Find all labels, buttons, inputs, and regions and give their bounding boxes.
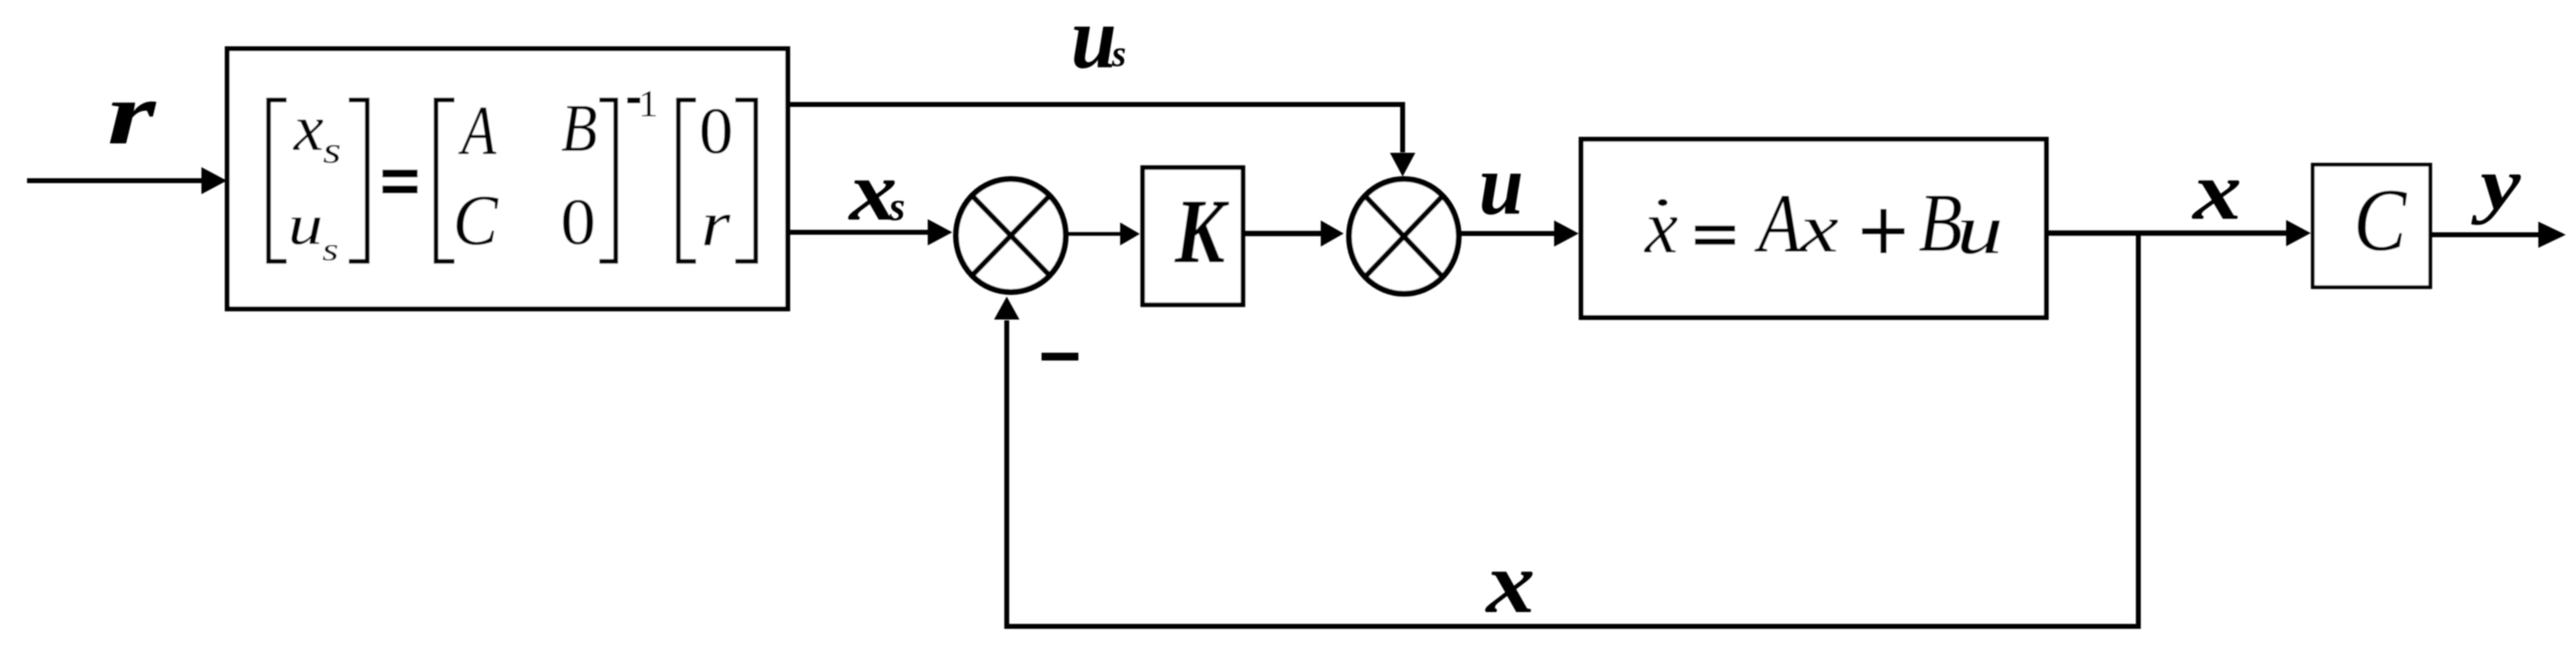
equals (1695, 225, 1735, 231)
wire us feedforward top (790, 105, 1416, 177)
svg-text:r: r (701, 188, 730, 260)
svg-text:u: u (288, 192, 323, 256)
node us label (1071, 0, 1126, 87)
svg-text:u: u (1071, 0, 1117, 87)
wire r input (27, 167, 227, 194)
wire feedback x path (994, 235, 2139, 627)
svg-text:x: x (1485, 535, 1534, 632)
bracket left 1 (269, 100, 287, 261)
svg-text:0: 0 (699, 94, 734, 167)
bracket left 2 (436, 100, 455, 261)
block K gain (1143, 168, 1244, 306)
svg-text:x: x (293, 92, 323, 165)
svg-text:r: r (107, 65, 157, 162)
wire xs from box to summing junction (790, 220, 952, 246)
svg-text:A: A (458, 91, 497, 170)
svg-text:s: s (323, 130, 341, 171)
bracket left 3 (679, 100, 697, 261)
plus (1862, 229, 1905, 235)
svg-text:C: C (2353, 171, 2407, 270)
node minus sign at S1 (1042, 353, 1078, 361)
block U1 feedforward matrix equation box (228, 49, 789, 310)
equals sign (382, 170, 418, 178)
wire K to S2 (1245, 220, 1344, 247)
svg-text:1: 1 (639, 83, 658, 125)
summing junction S2 (1349, 179, 1459, 294)
svg-text:u: u (1956, 190, 2003, 270)
wire y output (2430, 222, 2566, 248)
wire x output from plant (2046, 220, 2311, 247)
svg-text:s: s (1111, 33, 1126, 75)
bracket right 1 (349, 100, 368, 261)
wire S1 to K (1066, 223, 1140, 246)
svg-text:0: 0 (561, 185, 596, 258)
svg-text:s: s (888, 184, 905, 229)
summing junction S1 (956, 179, 1066, 292)
svg-text:K: K (1174, 181, 1230, 283)
bracket right 2 (599, 100, 616, 261)
svg-text:x: x (1643, 184, 1678, 269)
svg-text:u: u (1479, 137, 1523, 234)
wire S2 to plant (1459, 220, 1579, 247)
dot over x (1658, 199, 1668, 206)
svg-text:s: s (323, 231, 339, 267)
svg-text:A: A (1754, 176, 1802, 270)
svg-text:x: x (1798, 189, 1839, 266)
node xs label (847, 143, 905, 238)
bracket right 3 (735, 100, 756, 261)
block plant state equation (1581, 139, 2046, 318)
svg-text:x: x (2191, 144, 2242, 237)
matrix equation [xs;us]=[A B;C 0]^-1 [0;r] (269, 83, 756, 268)
svg-text:C: C (453, 181, 499, 261)
superscript -1 (627, 97, 640, 103)
block C output matrix (2313, 165, 2431, 288)
svg-text:B: B (561, 90, 597, 166)
